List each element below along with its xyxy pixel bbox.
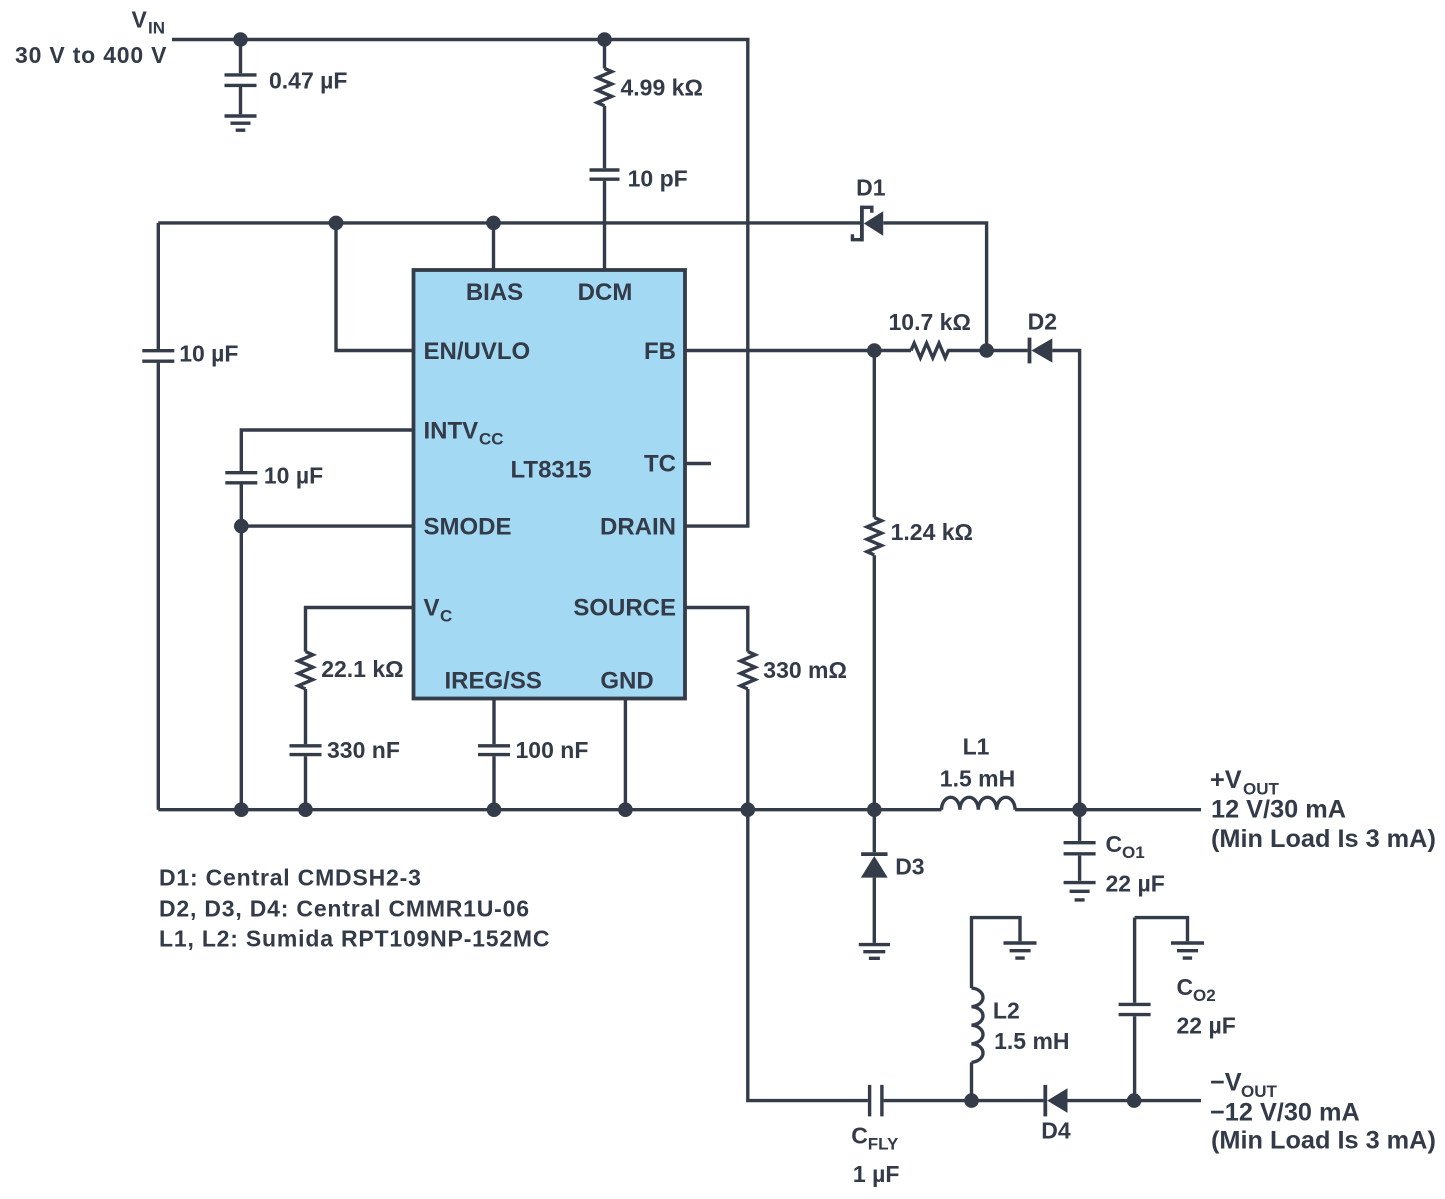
svg-text:D3: D3 [895,854,924,880]
svg-text:SMODE: SMODE [424,514,512,541]
svg-text:C: C [1177,974,1194,1000]
svg-text:30 V to 400 V: 30 V to 400 V [15,42,167,68]
svg-text:DCM: DCM [578,279,633,306]
svg-text:V: V [424,595,440,622]
svg-text:LT8315: LT8315 [511,457,592,484]
svg-text:330 nF: 330 nF [327,737,400,763]
svg-text:GND: GND [600,668,653,695]
svg-text:D4: D4 [1041,1118,1071,1144]
svg-text:C: C [851,1123,868,1149]
svg-text:22 µF: 22 µF [1106,871,1165,897]
svg-text:(Min Load Is 3 mA): (Min Load Is 3 mA) [1211,825,1436,853]
svg-text:D2, D3, D4: Central CMMR1U-06: D2, D3, D4: Central CMMR1U-06 [159,896,530,922]
svg-text:C: C [1106,831,1123,857]
svg-text:BIAS: BIAS [466,279,523,306]
svg-text:10 µF: 10 µF [179,341,238,367]
svg-text:100 nF: 100 nF [516,737,589,763]
svg-text:22.1 kΩ: 22.1 kΩ [321,656,403,682]
svg-text:DRAIN: DRAIN [600,514,676,541]
svg-text:330 mΩ: 330 mΩ [763,657,847,683]
svg-text:−V: −V [1210,1069,1242,1097]
svg-text:IN: IN [148,19,165,38]
svg-text:C: C [440,607,452,626]
svg-text:10 pF: 10 pF [628,166,688,192]
svg-text:L2: L2 [993,997,1020,1023]
svg-text:+V: +V [1210,766,1242,794]
svg-text:L1, L2: Sumida RPT109NP-152MC: L1, L2: Sumida RPT109NP-152MC [159,925,550,951]
svg-text:D1: D1 [856,175,886,201]
svg-text:O1: O1 [1122,843,1145,862]
svg-text:1.5 mH: 1.5 mH [994,1028,1069,1054]
svg-text:CC: CC [479,430,504,449]
svg-text:4.99 kΩ: 4.99 kΩ [621,75,703,101]
svg-text:22 µF: 22 µF [1177,1013,1236,1039]
svg-text:0.47 µF: 0.47 µF [269,68,347,94]
svg-text:12 V/30 mA: 12 V/30 mA [1211,796,1346,824]
svg-text:SOURCE: SOURCE [573,595,676,622]
svg-text:EN/UVLO: EN/UVLO [424,338,531,365]
svg-text:V: V [132,7,148,33]
svg-text:FB: FB [644,338,676,365]
svg-text:1 µF: 1 µF [853,1161,899,1187]
svg-text:D1: Central CMDSH2-3: D1: Central CMDSH2-3 [159,864,422,890]
svg-text:FLY: FLY [868,1135,899,1154]
svg-text:D2: D2 [1028,309,1057,335]
svg-text:IREG/SS: IREG/SS [445,668,542,695]
svg-text:1.24 kΩ: 1.24 kΩ [891,519,973,545]
svg-text:TC: TC [644,451,676,478]
svg-text:O2: O2 [1193,986,1216,1005]
svg-text:10.7 kΩ: 10.7 kΩ [889,309,971,335]
svg-text:L1: L1 [963,734,990,760]
svg-text:−12 V/30 mA: −12 V/30 mA [1210,1099,1360,1127]
svg-text:INTV: INTV [424,418,479,445]
svg-text:1.5 mH: 1.5 mH [940,766,1015,792]
svg-text:10 µF: 10 µF [264,462,323,488]
svg-text:(Min Load Is 3 mA): (Min Load Is 3 mA) [1211,1127,1436,1155]
